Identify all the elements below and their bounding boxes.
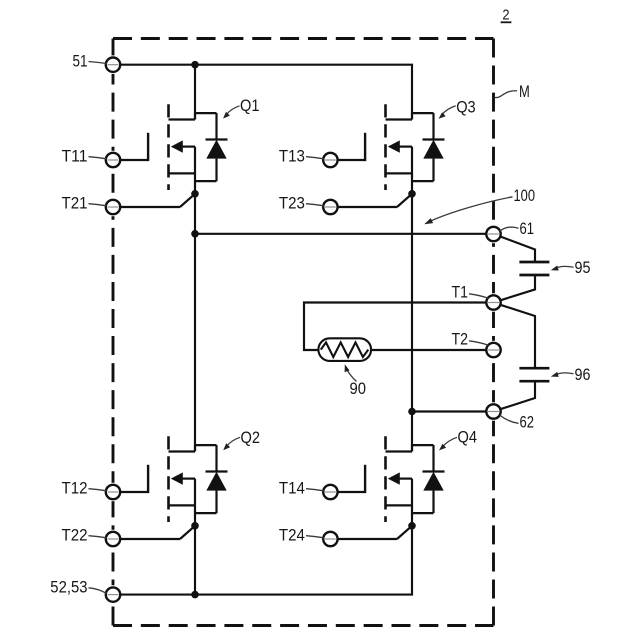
- wire: bottom rail from 52,53 to Q4 source: [106, 526, 412, 595]
- svg-text:T12: T12: [62, 480, 88, 498]
- white underlays for terminals on dashed border: [104, 55, 503, 603]
- wire: load right leg to T2: [371, 349, 501, 351]
- svg-text:2: 2: [502, 8, 509, 24]
- svg-text:T2: T2: [452, 330, 469, 348]
- junction dot at Q2 source / bottom rail: [191, 591, 199, 599]
- svg-text:T21: T21: [62, 195, 88, 213]
- terminal T23: [323, 200, 337, 214]
- terminal T11: [106, 153, 120, 167]
- transistor Q3 (n-MOSFET with body diode): [323, 104, 445, 207]
- svg-text:95: 95: [575, 259, 591, 277]
- transistor Q4 (n-MOSFET with body diode): [323, 436, 445, 539]
- terminal 51: [106, 57, 120, 71]
- junction dot right mid node: [408, 408, 416, 416]
- terminal 5253: [106, 587, 120, 601]
- terminal T13: [323, 153, 337, 167]
- wire: top rail from 51 to Q3 drain: [106, 65, 412, 120]
- svg-text:T23: T23: [279, 195, 305, 213]
- svg-text:90: 90: [350, 380, 367, 398]
- wire: left mid vertical Q1 source to Q2 drain: [194, 194, 196, 452]
- terminal T1: [486, 295, 500, 309]
- transistor Q2 (n-MOSFET with body diode): [106, 436, 228, 539]
- svg-text:T13: T13: [279, 148, 305, 166]
- junction dot at Q1 drain / top rail: [191, 61, 199, 69]
- wire: Q1 drain drop: [194, 65, 196, 120]
- terminal T22: [106, 532, 120, 546]
- svg-text:Q1: Q1: [240, 97, 260, 115]
- svg-text:Q2: Q2: [241, 429, 261, 447]
- svg-text:Q4: Q4: [458, 429, 478, 447]
- terminal T14: [323, 485, 337, 499]
- svg-text:96: 96: [575, 366, 591, 384]
- svg-text:100: 100: [514, 187, 536, 205]
- terminal T12: [106, 485, 120, 499]
- wire: T1 to capacitor 96: [500, 305, 535, 368]
- terminal T2: [486, 343, 500, 357]
- svg-text:52,53: 52,53: [50, 579, 87, 597]
- load 90 (heater element): [318, 338, 371, 361]
- svg-text:T1: T1: [452, 284, 469, 302]
- svg-text:T14: T14: [279, 480, 305, 498]
- wire: 61 to capacitor 95: [500, 237, 535, 263]
- svg-text:T11: T11: [62, 148, 88, 166]
- terminal circles: [106, 57, 501, 601]
- wire: T1 to load left leg: [304, 303, 501, 351]
- terminal 62: [486, 404, 500, 418]
- transistor Q1 (n-MOSFET with body diode): [106, 104, 228, 207]
- svg-text:51: 51: [73, 52, 88, 70]
- wire: node to terminal 61: [195, 233, 501, 235]
- wire: node to terminal 62: [412, 410, 501, 412]
- wire: capacitor 95 to T1: [500, 275, 535, 300]
- svg-text:M: M: [519, 83, 530, 101]
- wire: capacitor 96 to 62: [500, 381, 535, 409]
- wire: Q2 source drop to bottom rail: [194, 526, 196, 595]
- wire: right mid vertical Q3 source to Q4 drain: [411, 194, 413, 452]
- junction dot left mid node: [191, 230, 199, 238]
- enclosure box M (dashed): [113, 39, 494, 626]
- terminal 61: [486, 227, 500, 241]
- svg-text:T22: T22: [62, 527, 88, 545]
- svg-text:62: 62: [520, 414, 535, 432]
- capacitor C96: [519, 368, 549, 381]
- capacitor C95: [519, 262, 549, 275]
- svg-text:Q3: Q3: [456, 98, 476, 116]
- svg-text:61: 61: [520, 220, 535, 238]
- terminal T24: [323, 532, 337, 546]
- svg-text:T24: T24: [279, 527, 305, 545]
- terminal T21: [106, 200, 120, 214]
